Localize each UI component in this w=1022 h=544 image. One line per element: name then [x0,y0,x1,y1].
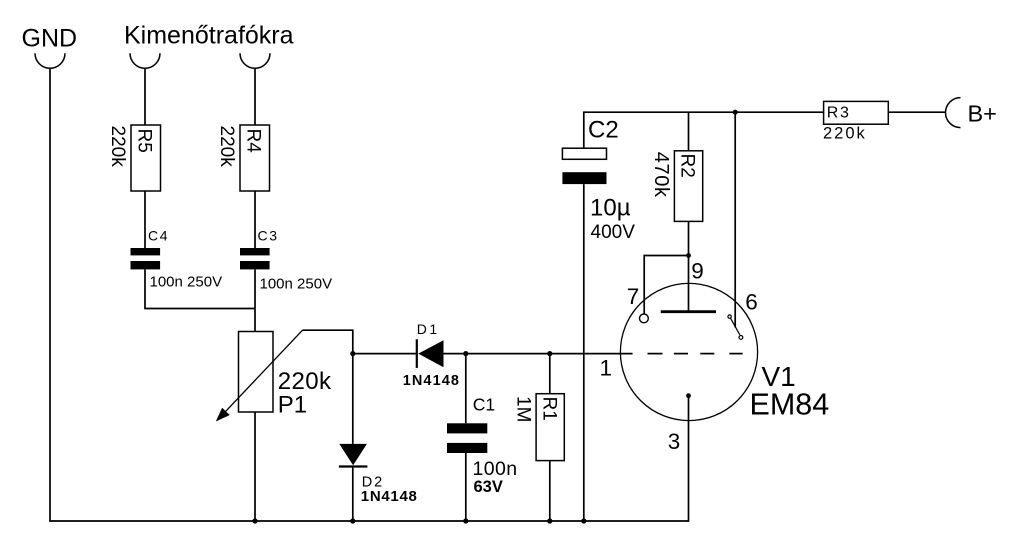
node junction C2 rail [581,518,586,523]
cathode dot pin3 [686,393,691,398]
potentiometer P1 [216,330,332,421]
svg-text:GND: GND [22,25,78,53]
svg-text:R2: R2 [677,154,698,178]
ground rail [49,520,688,522]
diode D2 [339,444,418,505]
svg-text:Kimenőtrafókra: Kimenőtrafókra [124,22,294,50]
wire R3 to B+ [888,111,946,113]
resistor R4 [216,125,270,191]
svg-text:C1: C1 [473,395,495,415]
node junction pin6 top [733,110,738,115]
node junction C1 rail [463,518,468,523]
wire pin3 down [688,396,690,522]
svg-text:1M: 1M [513,396,534,422]
wire R2 bottom [688,221,690,255]
svg-text:P1: P1 [278,392,307,419]
pin 9 target bar [661,310,716,313]
wire junction to D1 [353,353,417,355]
wire GND vertical [49,68,51,521]
svg-text:220k: 220k [216,126,237,168]
wire pin7 L [644,256,688,314]
wire pin6 vertical [734,112,736,327]
capacitor C2 [562,117,635,244]
svg-text:470k: 470k [650,152,672,198]
tube V1 envelope [620,283,757,420]
svg-text:C3: C3 [258,228,279,244]
terminal GND [22,25,78,69]
svg-text:220k: 220k [107,126,128,168]
wire terminal3 stub [254,68,256,125]
diode D1 [403,321,460,389]
wire top rail [584,111,824,113]
svg-text:63V: 63V [474,478,503,496]
svg-text:6: 6 [745,290,758,315]
wire C2 column [583,184,585,521]
pin 7 grid circle [640,314,649,323]
svg-text:C2: C2 [588,117,619,144]
wire D2 branch down [352,354,354,444]
svg-text:10µ: 10µ [590,195,631,222]
node junction R1 rail [547,518,552,523]
svg-text:7: 7 [627,284,640,309]
node junction R1 top [547,351,552,356]
resistor R5 [107,125,161,191]
pin1 dashed line inside tube [648,353,743,355]
svg-text:R5: R5 [134,129,155,153]
node junction D2 rail [350,518,355,523]
svg-text:1N4148: 1N4148 [403,373,460,389]
wire R5 to C4 [144,191,146,248]
svg-text:1N4148: 1N4148 [361,488,418,505]
svg-text:R1: R1 [539,397,560,421]
terminal Kimenotrafokra left [124,22,294,69]
resistor R3 [823,101,888,142]
resistor R1 [513,394,565,461]
svg-text:100n: 100n [473,458,518,480]
svg-text:R3: R3 [827,105,851,122]
wire R1 top [549,354,551,394]
node junction P1 rail [252,518,257,523]
node junction wiper/D1 [350,351,355,356]
resistor R2 [650,151,703,222]
wire pin9 down [688,256,690,312]
wire C3 down to P1 [254,269,256,331]
terminal Kimenotrafokra right [240,53,270,68]
capacitor C1 [447,395,517,497]
node junction C1 top [463,351,468,356]
svg-text:EM84: EM84 [750,387,830,421]
svg-text:400V: 400V [591,222,636,243]
wire R4 to C3 [254,191,256,248]
wire R2 top [688,112,690,151]
wire D1 to tube [444,353,633,355]
svg-text:1: 1 [600,355,613,380]
terminal B+ [946,98,997,128]
svg-text:B+: B+ [968,101,997,127]
capacitor C4 [131,228,223,291]
wire P1 bottom [254,412,256,521]
wire terminal2 stub [144,68,146,125]
svg-text:3: 3 [668,429,681,454]
node junction pin9 [686,253,691,258]
wire D2 down [352,467,354,522]
wire C1 down [465,453,467,521]
wire P1 wiper down [352,329,354,353]
svg-text:100n 250V: 100n 250V [150,274,223,291]
wire P1 wiper horizontal [303,329,353,331]
wire C4 to C3 link [144,308,255,310]
svg-text:9: 9 [691,259,704,284]
svg-text:D1: D1 [417,321,440,337]
svg-text:220k: 220k [823,125,867,143]
wire C2 up to top rail [583,111,585,148]
wire C4 down [144,269,146,308]
svg-text:100n 250V: 100n 250V [260,276,333,293]
wire C1 top [465,354,467,424]
pin 6 grid contact [728,315,743,339]
svg-text:C4: C4 [148,228,169,244]
capacitor C3 [240,228,332,293]
wire R1 down [549,461,551,521]
svg-text:R4: R4 [243,129,264,154]
